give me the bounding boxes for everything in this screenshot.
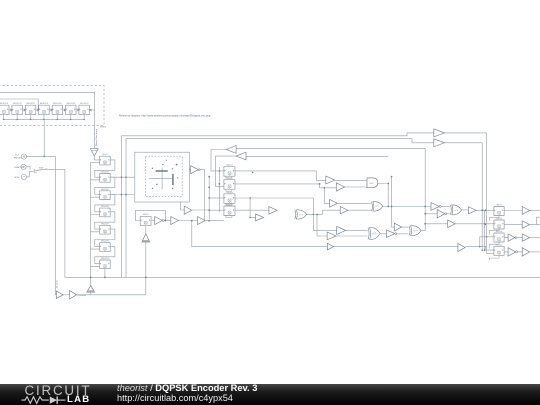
svg-text:MS-D16#R: MS-D16#R xyxy=(80,103,89,105)
svg-text:CHAPTER: CHAPTER xyxy=(14,166,25,169)
svg-text:MS-D8: MS-D8 xyxy=(143,214,148,216)
svg-text:MS-D13#R: MS-D13#R xyxy=(40,103,49,105)
svg-text:Clock In: Clock In xyxy=(57,279,59,288)
svg-text:8M 50%: 8M 50% xyxy=(14,157,22,159)
svg-text:MS-DI: MS-DI xyxy=(497,205,502,207)
svg-text:MS-D17: MS-D17 xyxy=(226,165,232,167)
svg-text:CLK: CLK xyxy=(15,155,20,157)
svg-text:MS-D1: MS-D1 xyxy=(102,154,107,156)
svg-text:UP50: UP50 xyxy=(14,177,20,179)
svg-text:SW1: SW1 xyxy=(39,167,45,169)
svg-text:MS-D15#R: MS-D15#R xyxy=(67,103,76,105)
svg-text:CLKBUF: CLKBUF xyxy=(78,295,87,297)
svg-text:MS-D2#R: MS-D2#R xyxy=(101,172,109,174)
svg-text:MS-D3#R: MS-D3#R xyxy=(101,189,109,191)
svg-text:MS-D7#R: MS-D7#R xyxy=(101,258,109,260)
svg-text:MS-D10#R: MS-D10#R xyxy=(0,103,9,105)
svg-text:http://www.wirelesscommunicati: http://www.wirelesscommunication.nl/chap… xyxy=(142,115,211,118)
svg-text:Binary Data Input: Binary Data Input xyxy=(95,129,98,146)
svg-text:MS-D11#R: MS-D11#R xyxy=(13,103,22,105)
svg-text:MS-D12#R: MS-D12#R xyxy=(26,103,35,105)
svg-text:MS-DQ: MS-DQ xyxy=(496,218,502,220)
svg-text:Reference diagram:: Reference diagram: xyxy=(119,115,141,118)
svg-text:PRBS: PRBS xyxy=(100,127,106,129)
svg-text:MS-Q0a: MS-Q0a xyxy=(226,192,232,194)
svg-text:MS-D14#R: MS-D14#R xyxy=(53,103,62,105)
svg-text:MS-DQ.b: MS-DQ.b xyxy=(495,244,502,246)
svg-text:MS-D6#R: MS-D6#R xyxy=(101,241,109,243)
svg-text:MS-D5#R: MS-D5#R xyxy=(101,223,109,225)
svg-text:MS-DI.b: MS-DI.b xyxy=(496,231,502,233)
svg-text:MS-D4#R: MS-D4#R xyxy=(101,206,109,208)
